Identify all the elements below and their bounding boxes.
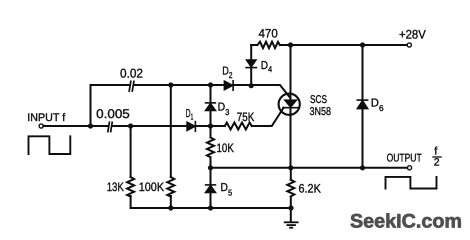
wire left branch x=90.5 [90,85,92,126]
svg-text:D3: D3 [218,101,230,116]
diode D5 [206,185,216,193]
input terminal [39,124,43,128]
output terminal [407,166,411,170]
svg-text:D5: D5 [221,182,233,197]
svg-text:SCS: SCS [310,94,327,106]
svg-text:6.2K: 6.2K [299,182,321,196]
wire 100K branch x=170.8 [170,85,172,208]
svg-text:D6: D6 [371,98,384,113]
resistor 13K [127,177,134,197]
svg-text:INPUT f: INPUT f [27,112,66,124]
svg-text:0.005: 0.005 [96,107,130,121]
capacitor 0.005 [108,122,112,131]
input waveform [29,136,71,154]
wire mid horizontal y=167.8 [211,167,408,169]
svg-text:3N58: 3N58 [310,106,332,118]
wire top rail y=45 [251,44,407,46]
svg-text:D2: D2 [222,66,233,81]
svg-text:100K: 100K [139,180,164,194]
wire input y=126 [43,125,225,127]
diode D2 [224,81,233,90]
svg-text:0.02: 0.02 [120,66,143,80]
resistor 75K [225,123,252,130]
resistor 6.2K [287,180,294,197]
svg-text:+28V: +28V [399,27,427,41]
diode D3 [206,103,216,111]
diode D6 [357,100,367,109]
svg-text:75K: 75K [237,110,255,124]
svg-text:SeekIC.com: SeekIC.com [350,211,462,233]
wire D6 branch x=362.5 [362,45,364,168]
diode D1 [187,122,195,132]
resistor 10K [207,138,214,158]
wire 13K branch x=130.6 [130,126,132,208]
svg-text:2: 2 [434,156,440,168]
wire gate from 75K [252,108,284,126]
output waveform [386,177,437,189]
SCS Q1 3N58 body circle [279,94,300,115]
SCS Q1 3N58 cathode triangle and bar [283,100,298,108]
wire SCS anode x=290.5 [290,45,292,168]
wire bottom rail y=208 [131,207,291,209]
svg-text:OUTPUT: OUTPUT [387,152,422,164]
svg-text:470: 470 [259,27,279,41]
wire D4 branch x=251 [250,45,252,86]
wire y=85 upper horizontal [91,85,291,98]
wire middle branch x=210.5 [210,85,212,208]
svg-text:D1: D1 [186,108,194,121]
resistor 100K [167,177,174,197]
node junction dots [88,123,93,128]
capacitor 0.02 [129,81,134,91]
diode D4 [246,60,256,68]
+28V terminal [407,43,411,47]
svg-text:D4: D4 [261,60,273,74]
resistor 470 [258,42,280,48]
resistor 6.2K branch [290,168,292,221]
svg-text:13K: 13K [107,180,124,194]
fraction bar f/2 [433,156,441,158]
svg-text:10K: 10K [217,141,234,155]
ground [285,222,298,227]
